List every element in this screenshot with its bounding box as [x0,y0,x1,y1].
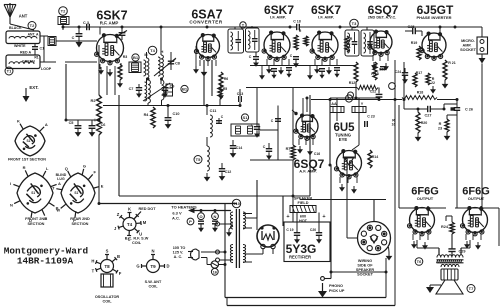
wire T5 bottom to R7 [250,159,293,161]
svg-text:C12: C12 [225,170,232,174]
svg-text:T3: T3 [352,21,357,26]
terminal T4 circle [148,46,157,55]
svg-text:R 15: R 15 [371,72,379,76]
svg-text:F: F [119,271,122,276]
vertical feeds from box to rectifier area [256,180,258,218]
svg-text:W: W [56,208,60,213]
svg-text:23: 23 [438,127,442,131]
svg-text:T: T [92,269,95,274]
svg-text:S1: S1 [31,191,35,195]
transformer left wires [220,223,234,225]
svg-text:WHITE: WHITE [14,44,26,48]
wire can tops [207,26,262,28]
capacitor C21 [380,66,386,68]
power transformer T10 [232,199,240,207]
svg-text:C5: C5 [69,121,74,125]
wires terminal strips [336,98,338,106]
wires plug to transformer [201,251,225,253]
svg-text:22: 22 [431,81,435,85]
volume control circle [348,92,354,98]
diode load resistors [354,62,358,82]
svg-text:EXT.: EXT. [29,85,38,90]
resistor R21 cathode [443,60,447,80]
wire to RF grid [56,40,97,42]
rectifier wires [245,217,257,219]
svg-text:Y: Y [361,102,364,106]
socket stub [347,237,358,239]
svg-text:ANT. A: ANT. A [28,33,39,37]
svg-text:C24: C24 [395,70,401,74]
phase inverter vertical rails [403,62,405,100]
svg-text:SECTION: SECTION [72,222,89,226]
svg-text:C 18: C 18 [293,20,301,24]
svg-text:FRONT 2ND: FRONT 2ND [25,217,47,221]
svg-text:BLACK: BLACK [9,26,22,30]
svg-text:R3: R3 [123,55,128,59]
circled ref near phase inverter [389,83,396,90]
svg-text:T8: T8 [104,264,110,269]
svg-text:R1: R1 [34,56,38,60]
svg-text:R: R [350,37,353,41]
heater bypass P [187,218,194,225]
svg-text:C11: C11 [210,109,217,113]
svg-text:Z: Z [117,212,120,217]
svg-text:R18: R18 [417,91,424,95]
heater bypass N [212,213,219,220]
svg-text:P: P [189,219,192,224]
svg-text:S.W. ANT: S.W. ANT [145,280,162,284]
svg-text:T2: T2 [61,9,66,14]
wire loop to switch [40,35,48,37]
svg-text:LUG: LUG [57,177,65,181]
svg-text:C 26: C 26 [465,108,473,112]
svg-text:FRONT 1ST SECTION: FRONT 1ST SECTION [8,158,46,162]
PHONO PICK UP [330,165,332,279]
terminal T1 [5,67,13,75]
detector to AF coupling [355,82,357,98]
oscillator coil spider T8 [101,260,114,273]
svg-text:K: K [17,119,20,124]
REAR 2ND SECTION gang [61,173,95,213]
tube V4 6SK7 I.F. amplifier 2 [312,32,338,58]
output stage top wires [399,207,446,209]
svg-text:T2: T2 [30,23,35,28]
tube V9 6F6G output 1 [410,208,435,233]
antenna ANT [9,3,11,17]
bottom return bus wire [225,297,386,299]
svg-text:COIL: COIL [148,285,158,289]
svg-text:WIRING: WIRING [358,259,372,263]
svg-text:B: B [117,254,120,259]
capacitor C29 [451,234,453,248]
svg-text:PICK UP: PICK UP [329,289,345,293]
svg-text:S1: S1 [27,139,31,143]
series capacitor C18 rail [296,24,298,30]
terminal strips AA Y [345,95,352,102]
svg-text:K: K [128,207,131,212]
capacitor C12 [219,168,225,170]
svg-text:PHONO: PHONO [329,284,343,288]
svg-text:H: H [91,258,94,263]
svg-text:N: N [10,202,13,207]
svg-text:B1: B1 [182,87,188,92]
capacitor C4a mid [266,148,272,150]
IF1 bottom pins grounds [266,59,268,65]
resistor R11 vertical [345,36,349,52]
IF transformer can secondary [246,28,260,52]
svg-text:AMP.: AMP. [462,44,471,48]
svg-text:R6: R6 [224,77,228,81]
svg-text:R2: R2 [90,98,96,103]
svg-text:M: M [143,220,147,225]
resistor R22 vertical [426,73,430,85]
output transformer T6 [415,258,423,266]
antenna loop coil T2 box [6,31,40,44]
svg-text:T4: T4 [150,48,155,53]
svg-text:REAR 2ND: REAR 2ND [70,217,90,221]
svg-text:C1: C1 [40,47,45,51]
svg-text:R12: R12 [349,81,356,85]
svg-text:+: + [286,214,289,220]
RF coil primary [161,55,163,78]
svg-text:MICRO.: MICRO. [461,39,475,43]
svg-text:R.F. AMP: R.F. AMP [100,21,119,26]
svg-text:C25: C25 [408,25,415,29]
wire from loop down left [65,64,67,120]
speaker cone [436,280,463,294]
svg-text:FIELD: FIELD [298,201,309,205]
wires RF interstage [122,26,207,28]
B.C. R.F. S.W. coil spider T4 [123,218,136,231]
RF coil lower section [148,80,150,103]
wire phono junction to right riser [331,271,386,273]
svg-text:T4: T4 [127,222,133,227]
capacitor C23 [364,121,366,127]
svg-text:A.F. AMP.: A.F. AMP. [299,169,317,174]
tube V5 6SQ7 2nd det AVC [370,31,392,53]
svg-text:N: N [151,249,154,254]
tube V7 6SQ7 A.F. amplifier [296,115,318,137]
svg-text:EYE: EYE [339,137,348,142]
svg-text:C10: C10 [173,112,180,116]
svg-text:C: C [251,123,254,127]
resistor R5 [218,85,222,99]
wire rail to IF1 [262,26,290,28]
RF coil secondary [147,58,149,78]
resistor R6 under 6SA7 [219,72,223,92]
svg-text:T9: T9 [150,264,156,269]
series capacitor C3 on antenna rail [62,27,64,30]
svg-text:A.C.: A.C. [172,216,180,221]
svg-text:OUTPUT: OUTPUT [417,196,434,201]
svg-text:C: C [249,55,252,59]
heater bypass O [198,213,205,220]
svg-text:S: S [106,249,109,254]
svg-text:B1: B1 [133,55,139,60]
tube V8 6U5 tuning eye [337,151,362,176]
6SQ7 AF grid cap [294,112,297,115]
svg-text:A: A [45,122,48,127]
oscillator switch S1c [231,124,259,136]
capacitor C24 bypass [402,72,408,74]
svg-text:C27: C27 [425,114,432,118]
svg-text:T6: T6 [417,259,422,264]
outer bottom loop [227,305,395,307]
band switch S1b box [129,62,141,73]
5Y3G rectifier tube [257,225,279,247]
svg-text:C: C [72,36,75,40]
capacitor C25 coupling [412,28,414,34]
6SA7 bottom grounds [199,60,201,66]
svg-text:RECTIFIER: RECTIFIER [289,255,311,260]
svg-text:N: N [214,214,217,219]
oscillator coil T5 [194,156,202,164]
svg-text:SIDE OF: SIDE OF [357,264,373,268]
resistor R24 [450,222,454,234]
6J5GT plate wire to top rail [430,26,455,28]
svg-text:R: R [439,122,442,126]
right vertical rails [346,160,348,238]
svg-text:E: E [101,183,104,188]
svg-text:R7: R7 [286,147,291,151]
svg-text:CONVERTER: CONVERTER [189,20,223,25]
grid cap resistor above RF tube [59,7,68,16]
svg-text:Q: Q [65,166,68,171]
capacitor C2 to ground [78,27,80,33]
wires oscillator [206,106,208,116]
capacitor C13 [238,96,240,102]
svg-text:+: + [94,118,97,124]
IF2 bottom pins grounds [314,59,316,65]
svg-text:C20: C20 [310,228,316,232]
IF3 transformer can pair [345,30,359,56]
svg-text:G: G [83,163,86,168]
svg-text:C 19: C 19 [286,228,293,232]
trimmer C8 [168,60,174,62]
oscillator grid drop wires [203,60,205,106]
tube V1 6SK7 R.F. amplifier [97,35,124,62]
bus risers [292,196,294,222]
svg-text:S1: S1 [243,115,249,120]
transformer terminals [216,222,220,226]
RF tube bottom pins and grounds [99,64,101,69]
capacitor C15 right [275,118,281,120]
svg-text:I.F. AMP.: I.F. AMP. [270,14,286,19]
svg-text:T10: T10 [233,201,241,206]
resistor R19 grid [417,46,421,60]
svg-text:14BR-1109A: 14BR-1109A [17,256,74,267]
S.W. ANT coil spider T9 [147,260,160,273]
svg-text:D: D [166,264,169,269]
resistor R11 [304,36,308,46]
wire to micro amp socket [455,26,482,28]
resistor R20 vertical [416,112,420,133]
speaker socket circle [358,222,391,255]
svg-text:R24: R24 [441,225,449,229]
svg-text:C: C [263,145,266,149]
6SQ7 det bottom components [372,55,374,61]
svg-text:I.F. AMP.: I.F. AMP. [318,14,334,19]
svg-text:A: A [58,181,61,186]
svg-text:R5: R5 [223,87,227,91]
svg-text:COIL: COIL [132,241,142,245]
svg-text:125 V.: 125 V. [173,251,184,255]
section box outline [118,95,120,196]
svg-text:R19: R19 [411,41,418,45]
tube V3 6SK7 I.F. amplifier 1 [264,32,290,58]
svg-text:R: R [23,165,26,170]
speaker ground [430,284,441,286]
svg-text:SOCKET: SOCKET [357,273,374,277]
svg-text:R20: R20 [421,121,428,125]
svg-text:SOCKET: SOCKET [460,48,477,52]
svg-text:O: O [199,214,202,219]
svg-text:I: I [10,181,11,186]
tube V2 6SA7 converter [197,35,220,58]
svg-text:C22: C22 [370,90,377,94]
resistor R2 long vertical [97,95,102,135]
AVC bus under IF tubes [250,65,356,67]
speaker field feed wire [300,199,386,201]
svg-text:R 21: R 21 [448,61,456,65]
resistor R14 [368,150,372,168]
tube V10 6F6G output 2 [463,208,488,233]
FRONT 1ST SECTION gang [15,126,45,156]
resistor R7 [291,145,295,160]
wire bus at 203.5 [100,203,237,205]
heater rail wire [194,210,231,212]
svg-text:T7: T7 [469,286,474,291]
svg-text:OSCILLATOR: OSCILLATOR [95,295,120,299]
svg-text:2ND DET. A.V.C.: 2ND DET. A.V.C. [368,15,397,19]
svg-text:C 23: C 23 [367,115,375,119]
capacitor C26 on rail [454,107,460,109]
svg-text:R17: R17 [416,71,423,75]
svg-text:C29: C29 [459,250,466,254]
svg-text:C14: C14 [236,146,243,150]
capacitor C27 series [427,106,429,112]
terminal T3 circle [350,19,359,28]
svg-text:T1: T1 [7,69,12,74]
svg-text:RED A: RED A [20,51,31,55]
svg-text:T5: T5 [196,157,201,162]
resistor R23 vertical [445,119,449,132]
svg-text:C7: C7 [129,87,134,91]
resistor R17 vertical [413,73,417,87]
svg-text:ANT: ANT [19,14,28,19]
speaker voice coil [441,269,458,280]
svg-text:SECTION: SECTION [28,222,45,226]
capacitor C14 [230,145,236,147]
tube V6 6J5GT phase inverter [422,33,446,57]
svg-text:B.C. R.F. S.W: B.C. R.F. S.W [125,237,149,241]
svg-text:R14: R14 [372,155,379,159]
svg-text:S1: S1 [74,191,78,195]
svg-text:SPEAKER: SPEAKER [356,268,375,272]
AVC filtered bus [246,87,357,89]
svg-text:600: 600 [300,215,306,219]
svg-text:C21: C21 [379,68,385,72]
wire top rail left [63,26,100,28]
resistor R10 screen [294,35,298,50]
svg-text:RED DOT: RED DOT [138,207,156,211]
svg-text:C6: C6 [101,123,106,127]
svg-text:COIL: COIL [102,300,112,304]
horizontal bus y99 with R19 [311,99,402,101]
svg-text:GREEN: GREEN [22,60,35,64]
svg-text:16: 16 [213,269,218,274]
svg-text:+: + [322,214,325,220]
svg-text:PHASE INVERTER: PHASE INVERTER [416,15,451,20]
svg-text:105 TO: 105 TO [173,246,186,250]
variable capacitor C4 tuning [121,27,123,32]
resistor R4 [151,107,155,128]
rectifier filter box [284,222,330,262]
svg-text:16: 16 [392,123,396,127]
svg-text:C 3: C 3 [83,21,89,25]
capacitor on AVC bus [254,126,260,128]
svg-text:G: G [136,264,139,269]
osc tracking coil lower [162,80,164,100]
svg-text:A. C.: A. C. [174,255,183,259]
IF transformer T can primary [228,29,244,53]
FRONT 2ND SECTION gang [17,173,53,213]
junction dots [98,119,101,122]
trimmer C1 [32,46,38,48]
band switch S1a [48,37,56,46]
svg-text:C8: C8 [175,62,180,66]
power switch S2 [211,261,218,268]
svg-text:LOOP: LOOP [41,67,52,71]
svg-text:C16: C16 [314,152,320,156]
primary coil box RED A GREEN [6,55,40,69]
capacitor C22 [357,85,378,89]
capacitor C17 [293,56,299,58]
svg-text:AA: AA [331,102,337,106]
speaker field to filter box wires [296,213,298,227]
